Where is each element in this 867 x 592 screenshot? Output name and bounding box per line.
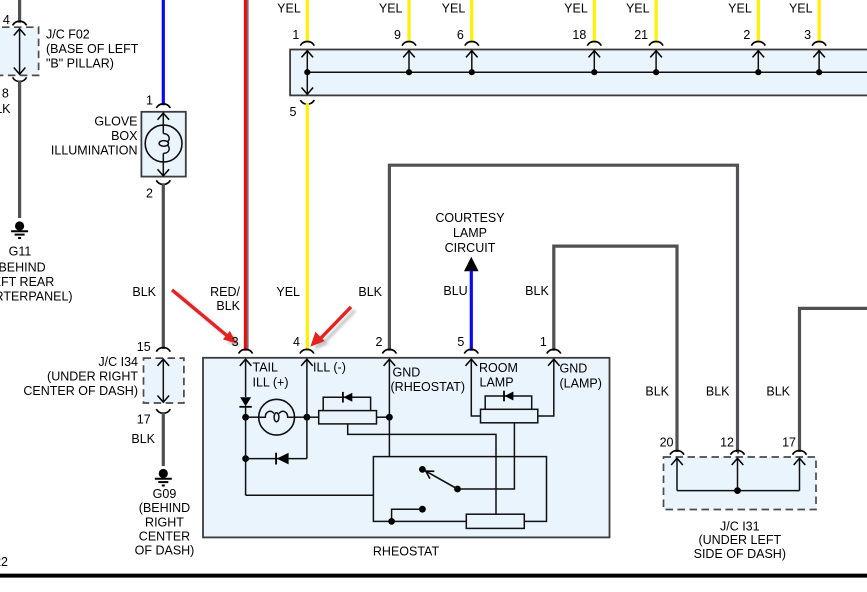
wire BLK rheostat pin 1 up and over to J/C I31 pin 20: [554, 246, 677, 452]
pin 5 label: [290, 105, 297, 119]
svg-text:G11: G11: [9, 245, 32, 259]
rheostat pin 3 arrow: [240, 359, 252, 366]
resistor R2 (room lamp dimmer): [481, 409, 538, 423]
pin 21 label: [634, 28, 648, 42]
red callout arrow at pin 3: [172, 290, 241, 347]
diode D4 on R2 bypass: [504, 391, 513, 402]
svg-text:12: 12: [720, 436, 734, 450]
wire R1 wiper tap: [348, 424, 496, 514]
svg-text:6: 6: [457, 28, 464, 42]
svg-text:BLK: BLK: [216, 299, 240, 313]
svg-text:G09: G09: [153, 487, 177, 501]
BLK label J/C I31 pin 17 wire: [766, 385, 790, 399]
J/C I31 pin 20 arrow: [671, 458, 683, 490]
bus pin 1 internal arrow: [302, 51, 314, 94]
connector arc glove box pin 2: [156, 180, 170, 184]
bypass wire over R1: [323, 397, 370, 410]
connector arc J/C F02 pin 8: [13, 77, 27, 81]
connector arc J/C I31 pin 12: [731, 451, 745, 455]
pin 2 label: [146, 187, 153, 201]
rheostat pin 5 arrow: [466, 359, 478, 366]
svg-text:5: 5: [290, 105, 297, 119]
BLK label: [131, 432, 155, 446]
svg-text:BLK: BLK: [525, 284, 549, 298]
connector arc bus pin 5: [300, 100, 314, 104]
wire diode to bulb junction: [245, 407, 247, 417]
pin 5 label rheostat: [457, 335, 464, 349]
svg-text:17: 17: [782, 436, 796, 450]
connector arc J/C I31 pin 20: [670, 451, 684, 455]
pin 2 label: [743, 28, 750, 42]
svg-text:1: 1: [540, 335, 547, 349]
ground G11: [11, 221, 28, 238]
RED/ BLK label: [210, 285, 241, 313]
wire BLU from top to glove box lamp pin 1: [162, 0, 165, 105]
svg-text:21: 21: [634, 28, 648, 42]
svg-text:RIGHT: RIGHT: [145, 515, 184, 529]
bottom border line: [0, 574, 867, 578]
svg-text:YEL: YEL: [379, 1, 403, 15]
YEL label: [276, 285, 300, 299]
resistor R3 (bottom): [466, 514, 524, 528]
YEL label pin 2: [728, 1, 752, 15]
svg-text:LEFT REAR: LEFT REAR: [0, 275, 54, 289]
connector arc bus pin 1: [300, 41, 314, 45]
pin 20 label J/C I31: [660, 436, 674, 450]
svg-text:CIRCUIT: CIRCUIT: [445, 241, 496, 255]
svg-text:20: 20: [660, 436, 674, 450]
svg-text:YEL: YEL: [564, 1, 588, 15]
wire YEL to bus pin 21: [654, 0, 657, 43]
diode D2 between pin3 branch and pin4 branch: [242, 417, 307, 464]
svg-text:LAMP: LAMP: [480, 376, 514, 390]
ground G09: [155, 469, 172, 486]
pin name TAIL ILL (+): [253, 361, 289, 390]
svg-text:2: 2: [743, 28, 750, 42]
svg-text:18: 18: [572, 28, 586, 42]
connector arc rheostat pin 4: [300, 349, 314, 353]
wire YEL bus pin 5 to rheostat pin 4: [306, 103, 309, 351]
wire pin 4 down: [306, 359, 308, 458]
bus pin 21 internal arrow: [650, 51, 662, 76]
YEL label pin 18: [564, 1, 588, 15]
svg-text:BLK: BLK: [131, 432, 155, 446]
pin 17 label J/C I31: [782, 436, 796, 450]
connector arc J/C I34 pin 17: [156, 409, 170, 413]
resistor R1 (ILL dimmer): [319, 411, 377, 424]
svg-text:BOX: BOX: [111, 129, 138, 143]
svg-text:BLK: BLK: [358, 285, 382, 299]
wire YEL to bus pin 9: [407, 0, 410, 43]
pin 12 label J/C I31: [720, 436, 734, 450]
wire R2 wiper tap to switch: [458, 423, 515, 489]
svg-text:YEL: YEL: [789, 1, 813, 15]
svg-text:(BEHIND: (BEHIND: [139, 501, 190, 515]
arrow to courtesy lamp circuit: [464, 257, 479, 272]
wire pin 5 down to R2: [471, 359, 480, 416]
YEL label pin 1: [277, 1, 301, 15]
svg-text:GND: GND: [560, 362, 588, 376]
J/C I31 pin 17 arrow: [794, 458, 806, 490]
svg-text:OF DASH): OF DASH): [135, 544, 195, 558]
svg-text:BLU: BLU: [443, 284, 467, 298]
svg-text:"B" PILLAR): "B" PILLAR): [46, 57, 114, 71]
wire pin3 branch down to switch box: [246, 459, 374, 496]
label J/C I34 (UNDER RIGHT CENTER OF DASH): [23, 355, 138, 398]
wire YEL to bus pin 1: [306, 0, 309, 43]
red callout arrow at pin 4: [310, 307, 355, 350]
svg-text:(BEHIND: (BEHIND: [0, 261, 46, 275]
svg-text:J/C I34: J/C I34: [98, 355, 138, 369]
pin 6 label: [457, 28, 464, 42]
svg-text:GND: GND: [393, 366, 421, 380]
YEL label pin 3: [789, 1, 813, 15]
svg-text:ILLUMINATION: ILLUMINATION: [51, 144, 138, 158]
J/C I31 pin 12 arrow: [732, 458, 744, 490]
YEL label pin 6: [442, 1, 466, 15]
node junction R1/pin2: [386, 414, 393, 421]
rheostat pin 2 arrow: [384, 359, 396, 366]
svg-text:17: 17: [137, 413, 151, 427]
svg-text:9: 9: [394, 28, 401, 42]
svg-text:(LAMP): (LAMP): [560, 377, 602, 391]
connector arc glove box pin 1: [156, 104, 170, 108]
node junction pin3/bulb: [242, 414, 249, 421]
node junction bulb/pin4: [304, 414, 311, 421]
connector arc bus pin 21: [649, 41, 663, 45]
YEL label pin 9: [379, 1, 403, 15]
rheostat pin 1 arrow: [548, 359, 560, 366]
diode D1 on pin 3 branch: [239, 397, 251, 407]
rheostat pin 4 arrow: [301, 359, 313, 366]
switch enclosure box: [373, 457, 546, 522]
svg-text:1: 1: [292, 28, 299, 42]
BLU label: [443, 284, 467, 298]
connector bus box (top): [290, 50, 867, 96]
svg-text:8: 8: [2, 86, 9, 100]
wire BLK rheostat pin 2 up and over to J/C I31 pin 12: [389, 165, 737, 452]
wire pin 2 down to switch box: [388, 359, 390, 456]
svg-text:YEL: YEL: [728, 1, 752, 15]
svg-text:1: 1: [146, 94, 153, 108]
connector arc bus pin 2: [751, 41, 765, 45]
pin name ROOM LAMP: [479, 361, 518, 390]
label COURTESY LAMP CIRCUIT: [435, 211, 505, 255]
BLK label (left edge): [0, 102, 11, 116]
BLK label J/C I31 pin 12 wire: [706, 385, 730, 399]
svg-text:(UNDER RIGHT: (UNDER RIGHT: [47, 370, 138, 384]
connector arc rheostat pin 5: [464, 349, 478, 353]
svg-text:QUARTERPANEL): QUARTERPANEL): [0, 290, 73, 304]
svg-text:SIDE OF DASH): SIDE OF DASH): [694, 547, 786, 561]
wire YEL to bus pin 18: [593, 0, 596, 43]
svg-text:2: 2: [375, 335, 382, 349]
label J/C I31 (UNDER LEFT SIDE OF DASH): [694, 519, 786, 561]
lamp rheostat illumination bulb: [259, 399, 295, 435]
svg-text:RHEOSTAT: RHEOSTAT: [373, 545, 440, 559]
pin 4 label rheostat: [293, 335, 300, 349]
pin 1 label: [292, 28, 299, 42]
wire BLK from top to J/C F02 pin 4: [18, 0, 21, 23]
svg-text:(RHEOSTAT): (RHEOSTAT): [391, 380, 466, 394]
svg-text:YEL: YEL: [276, 285, 300, 299]
svg-text:3: 3: [232, 335, 239, 349]
label G11 (BEHIND LEFT REAR QUARTERPANEL): [0, 245, 73, 304]
pin 18 label: [572, 28, 586, 42]
pin 9 label: [394, 28, 401, 42]
svg-text:RED/: RED/: [210, 285, 240, 299]
wire pin 3 down: [245, 359, 247, 397]
svg-text:ILL (-): ILL (-): [313, 361, 346, 375]
wire BLK glove box pin 2 to J/C I34 pin 15: [162, 183, 165, 349]
wire BLK J/C F02 pin 8 to ground G11: [18, 80, 21, 218]
page number 22: [0, 555, 8, 569]
junction connector J/C I34: [144, 358, 184, 403]
bus pin 18 internal arrow: [589, 51, 601, 76]
connector arc rheostat pin 1: [547, 349, 561, 353]
svg-text:ILL (+): ILL (+): [253, 376, 289, 390]
YEL label pin 21: [626, 1, 650, 15]
wire pin 1 down to R2: [538, 359, 554, 416]
connector arc rheostat pin 2: [382, 349, 396, 353]
svg-text:3: 3: [804, 28, 811, 42]
pin 2 label rheostat: [375, 335, 382, 349]
svg-text:YEL: YEL: [442, 1, 466, 15]
svg-text:YEL: YEL: [277, 1, 301, 15]
svg-text:15: 15: [137, 340, 151, 354]
svg-text:4: 4: [293, 335, 300, 349]
pin 15 label: [137, 340, 151, 354]
svg-text:BLK: BLK: [766, 385, 790, 399]
diode D3 on R1 bypass: [343, 392, 352, 403]
svg-text:J/C I31: J/C I31: [720, 519, 760, 533]
pin name ILL (-): [313, 361, 346, 375]
connector arc J/C I34 pin 15: [156, 348, 170, 352]
pin name GND (LAMP): [560, 362, 602, 391]
wire bulb to pin4 junction: [295, 416, 307, 418]
pin 4 label: [3, 13, 10, 27]
wire BLK J/C I34 pin 17 to ground G09: [162, 412, 165, 466]
svg-text:YEL: YEL: [626, 1, 650, 15]
label GLOVE BOX ILLUMINATION: [51, 115, 138, 158]
svg-text:5: 5: [457, 335, 464, 349]
wire pin4 junction to resistor R1: [307, 416, 319, 418]
pin 17 label: [137, 413, 151, 427]
pin name GND (RHEOSTAT): [391, 366, 466, 395]
BLK label J/C I31 pin 20 wire: [645, 385, 669, 399]
pin 1 label: [146, 94, 153, 108]
label G09 (BEHIND RIGHT CENTER OF DASH): [135, 487, 195, 558]
wire RED/BLK from top to rheostat pin 3: [245, 0, 247, 351]
junction connector J/C F02: [0, 27, 39, 75]
svg-text:BLK: BLK: [645, 385, 669, 399]
pin 3 label rheostat: [232, 335, 239, 349]
wire YEL to bus pin 3: [817, 0, 820, 43]
connector arc J/C I31 pin 17: [793, 451, 807, 455]
wire BLU courtesy lamp to rheostat pin 5: [470, 271, 473, 351]
connector arc bus pin 18: [587, 41, 601, 45]
svg-text:(BASE OF LEFT: (BASE OF LEFT: [46, 42, 139, 56]
pin 1 label rheostat: [540, 335, 547, 349]
svg-text:ROOM: ROOM: [479, 361, 518, 375]
svg-text:BLK: BLK: [0, 102, 11, 116]
switch lower contact: [392, 506, 426, 522]
wire junction to bulb: [246, 416, 259, 418]
switch arm with arrow: [419, 466, 461, 492]
wire joining J/C I31 pins: [677, 487, 800, 494]
bus pin 6 internal arrow: [466, 51, 478, 76]
svg-text:BLK: BLK: [706, 385, 730, 399]
connector arc J/C F02 pin 4: [13, 21, 27, 25]
connector arc bus pin 6: [465, 41, 479, 45]
connector arc bus pin 3: [812, 41, 826, 45]
junction connector J/C I31: [664, 457, 817, 510]
svg-text:4: 4: [3, 13, 10, 27]
label J/C F02: [46, 28, 139, 71]
BLK label pin 1 wire: [525, 284, 549, 298]
wire R1 to pin2 junction: [377, 416, 390, 418]
svg-text:CENTER OF DASH): CENTER OF DASH): [23, 384, 138, 398]
connector arc bus pin 9: [402, 41, 416, 45]
lamp GLOVE BOX ILLUMINATION: [141, 112, 185, 177]
svg-text:LAMP: LAMP: [453, 226, 487, 240]
component box RHEOSTAT: [203, 358, 610, 538]
node junction bottom rail: [388, 518, 395, 525]
svg-text:22: 22: [0, 555, 8, 569]
svg-text:TAIL: TAIL: [253, 361, 279, 375]
wire BLK from right edge to J/C I31 pin 17: [800, 308, 867, 452]
BLK label: [132, 285, 156, 299]
svg-text:(UNDER LEFT: (UNDER LEFT: [698, 533, 781, 547]
label RHEOSTAT: [373, 545, 440, 559]
pin 8 label: [2, 86, 9, 100]
svg-text:J/C F02: J/C F02: [46, 28, 90, 42]
bus pin 3 internal arrow: [813, 51, 825, 76]
svg-text:COURTESY: COURTESY: [435, 211, 505, 225]
svg-text:GLOVE: GLOVE: [94, 115, 137, 129]
bypass wire over R2: [485, 396, 532, 409]
bus pin 2 internal arrow: [753, 51, 765, 76]
bus pin 9 internal arrow: [403, 51, 415, 76]
wire YEL to bus pin 6: [470, 0, 473, 43]
pin 3 label: [804, 28, 811, 42]
BLK label pin 2 wire: [358, 285, 382, 299]
svg-text:BLK: BLK: [132, 285, 156, 299]
connector arc rheostat pin 3: [239, 349, 253, 353]
svg-text:2: 2: [146, 187, 153, 201]
wire YEL to bus pin 2: [757, 0, 760, 43]
svg-text:CENTER: CENTER: [139, 530, 190, 544]
